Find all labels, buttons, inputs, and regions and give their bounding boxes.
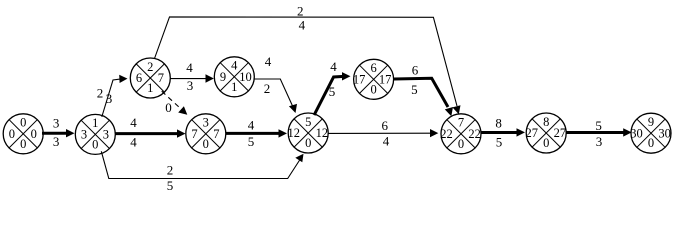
svg-text:5: 5: [411, 82, 418, 97]
svg-text:4: 4: [130, 115, 137, 130]
svg-text:4: 4: [383, 133, 390, 148]
svg-text:7: 7: [458, 116, 464, 130]
svg-text:12: 12: [288, 126, 301, 140]
wire activity 0-1 (critical): [42, 115, 75, 148]
svg-text:4: 4: [130, 134, 137, 149]
svg-text:1: 1: [92, 116, 98, 130]
svg-text:9: 9: [220, 70, 226, 84]
node N10: event 9, early=30 late=30: [630, 113, 671, 153]
svg-text:0: 0: [31, 127, 37, 141]
wire activity 5-6 (critical): [314, 59, 350, 115]
wire activity 2-4: [171, 60, 214, 93]
svg-text:9: 9: [648, 115, 654, 129]
svg-text:30: 30: [658, 126, 671, 140]
svg-text:0: 0: [20, 137, 26, 151]
svg-text:5: 5: [329, 84, 336, 99]
svg-text:0: 0: [648, 136, 654, 150]
wire activity 7-8 (critical): [482, 116, 526, 150]
svg-text:3: 3: [53, 115, 60, 130]
svg-text:2: 2: [147, 60, 153, 74]
svg-text:0: 0: [92, 137, 98, 151]
svg-text:0: 0: [305, 136, 311, 150]
svg-text:0: 0: [370, 82, 376, 96]
svg-text:5: 5: [167, 178, 174, 193]
wire activity 8-9 (critical): [567, 118, 632, 149]
svg-text:3: 3: [596, 134, 603, 149]
wire activity 1-3 (critical): [116, 115, 186, 149]
node N7: event 6, early=17 late=17: [353, 59, 394, 99]
svg-text:4: 4: [265, 54, 272, 69]
svg-text:3: 3: [53, 134, 60, 149]
svg-text:5: 5: [248, 134, 255, 149]
svg-text:3: 3: [103, 128, 109, 142]
wire activity 6-7 (critical): [394, 62, 453, 116]
svg-text:7: 7: [213, 127, 219, 141]
svg-text:4: 4: [231, 59, 238, 73]
svg-text:2: 2: [97, 85, 104, 100]
svg-text:2: 2: [167, 162, 174, 177]
svg-text:22: 22: [468, 127, 481, 141]
svg-text:4: 4: [186, 60, 193, 75]
node N4: event 4, early=9 late=10: [214, 57, 254, 97]
svg-text:5: 5: [305, 115, 311, 129]
svg-text:27: 27: [554, 126, 567, 140]
wire activity 4-5: [254, 54, 297, 113]
svg-text:4: 4: [248, 118, 255, 133]
wire activity 5-7: [329, 118, 439, 148]
svg-text:5: 5: [595, 118, 602, 133]
svg-text:3: 3: [187, 78, 194, 93]
svg-text:3: 3: [203, 116, 209, 130]
svg-text:5: 5: [496, 135, 503, 150]
svg-text:4: 4: [299, 17, 306, 32]
svg-text:17: 17: [379, 73, 392, 87]
svg-text:0: 0: [458, 137, 464, 151]
svg-text:17: 17: [353, 73, 366, 87]
node N5: event 3, early=7 late=7: [186, 114, 226, 154]
node N1: event 0, early=0 late=0: [3, 114, 43, 154]
svg-text:6: 6: [381, 118, 388, 133]
svg-text:6: 6: [370, 61, 376, 75]
svg-text:12: 12: [316, 126, 329, 140]
svg-text:8: 8: [543, 115, 549, 129]
wire activity 3-5 (critical): [226, 118, 287, 150]
svg-text:8: 8: [495, 116, 502, 131]
svg-text:0: 0: [543, 136, 549, 150]
wire activity 2-7 (top bypass): [155, 4, 461, 115]
wire activity 1-2: [97, 75, 128, 117]
svg-text:1: 1: [231, 80, 237, 94]
svg-text:0: 0: [165, 100, 172, 115]
node N9: event 8, early=27 late=27: [526, 113, 567, 153]
svg-text:0: 0: [9, 127, 15, 141]
svg-text:6: 6: [412, 62, 419, 77]
svg-text:22: 22: [440, 127, 453, 141]
svg-text:7: 7: [158, 71, 164, 85]
wire dummy activity 2-3 (dashed): [162, 91, 188, 115]
node N3: event 2, early=6 late=7: [130, 58, 170, 98]
svg-text:7: 7: [191, 127, 197, 141]
node N6: event 5, early=12 late=12: [288, 113, 329, 153]
svg-text:0: 0: [203, 137, 209, 151]
svg-text:3: 3: [106, 91, 113, 106]
svg-text:10: 10: [239, 70, 252, 84]
svg-text:30: 30: [630, 126, 643, 140]
svg-text:1: 1: [147, 81, 153, 95]
node N2: event 1, early=3 late=3: [75, 114, 115, 154]
svg-text:6: 6: [136, 71, 142, 85]
svg-text:3: 3: [81, 128, 87, 142]
svg-text:4: 4: [330, 59, 337, 74]
wire activity 1-5 (bottom bypass): [101, 151, 303, 193]
svg-text:2: 2: [264, 81, 271, 96]
svg-text:27: 27: [526, 126, 539, 140]
svg-text:0: 0: [20, 116, 26, 130]
node N8: event 7, early=22 late=22: [440, 114, 481, 154]
